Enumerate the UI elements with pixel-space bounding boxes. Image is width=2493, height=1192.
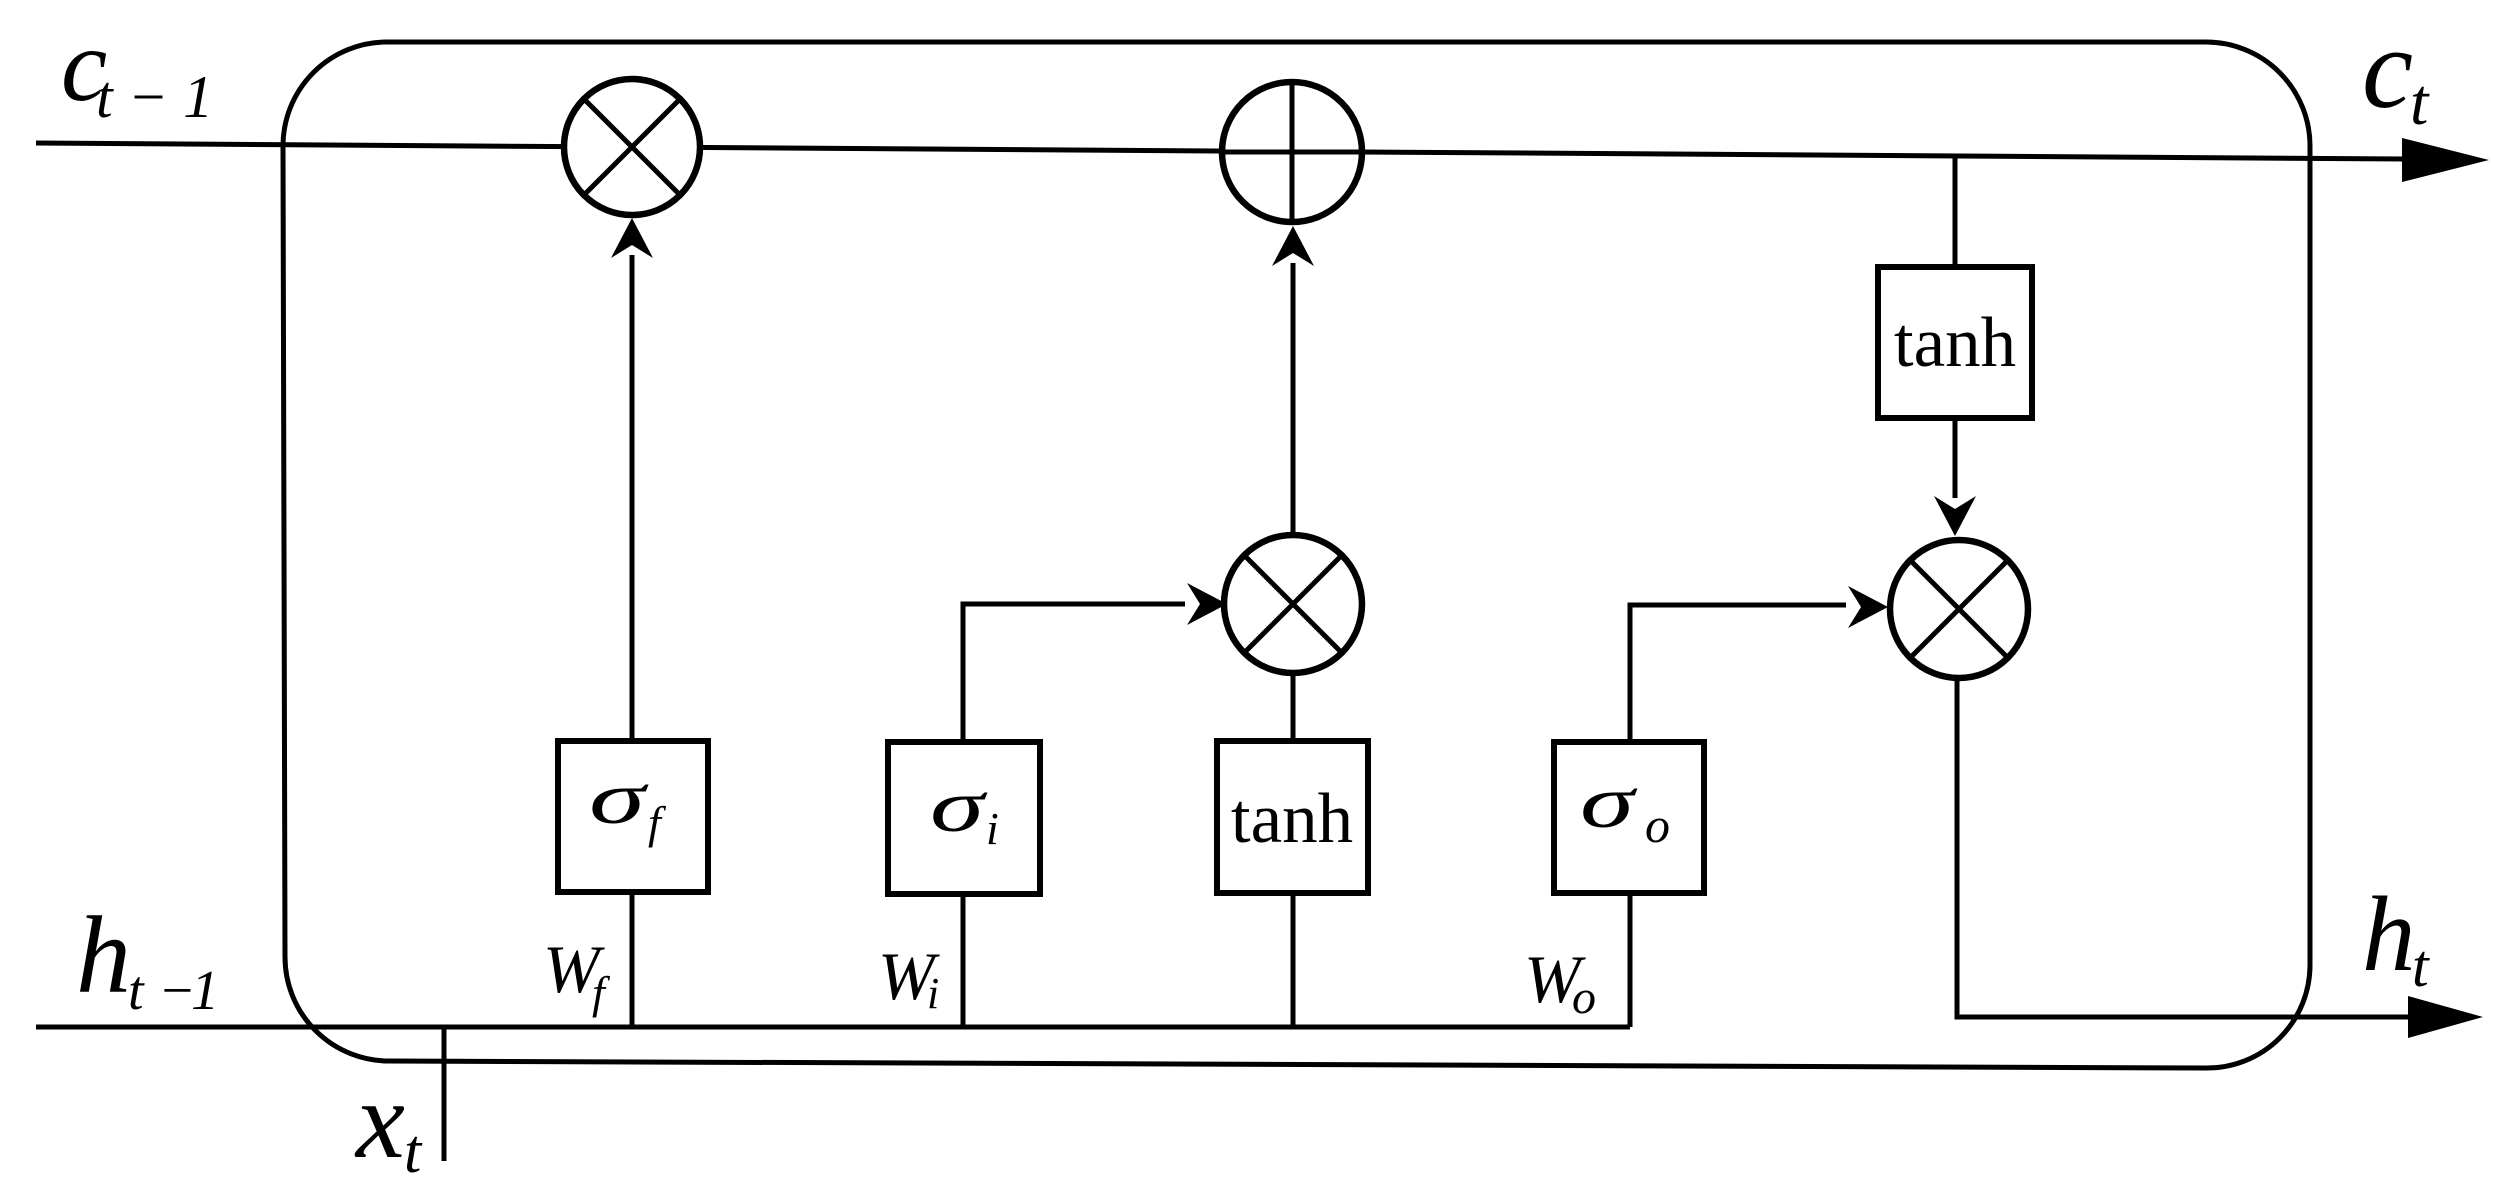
cell boundary rounded rectangle [283, 42, 2310, 1068]
svg-text:c: c [2362, 5, 2413, 132]
box sigma_f forget gate [558, 741, 708, 892]
node input multiply circle [1224, 535, 1362, 673]
svg-text:t: t [404, 1118, 423, 1186]
wire sigma_i down to h line [961, 894, 966, 1027]
node h_t output arrowhead [2408, 996, 2483, 1038]
box output tanh [1878, 267, 2032, 418]
svg-text:σ: σ [1580, 762, 1638, 844]
wire c-state line [36, 143, 2404, 159]
node c_t output arrowhead [2402, 138, 2489, 182]
wire candidate tanh up to input multiply [1291, 671, 1296, 741]
svg-text:1: 1 [191, 960, 219, 1022]
wire sigma_o down to h line [1628, 894, 1633, 1027]
wire output tanh down to output multiply [1953, 418, 1958, 498]
box sigma_o output gate [1554, 742, 1704, 893]
wire sigma_f down to h line [630, 892, 635, 1027]
svg-text:t: t [2412, 933, 2430, 999]
svg-text:t: t [128, 960, 145, 1022]
node output multiply circle [1890, 540, 2028, 678]
svg-text:σ: σ [589, 758, 649, 840]
svg-text:h: h [2362, 876, 2416, 994]
wire candidate tanh down to h line [1291, 894, 1296, 1027]
wire x_t input stub [442, 1027, 447, 1161]
svg-text:tanh: tanh [1894, 304, 2016, 382]
svg-text:tanh: tanh [1231, 780, 1353, 858]
box sigma_i input gate [888, 742, 1040, 894]
svg-text:i: i [986, 803, 999, 854]
wire sigma_o elbow to output multiply [1630, 605, 1846, 742]
wire sigma_f up to forget multiply [630, 255, 635, 741]
wire input multiply up to add node [1291, 263, 1296, 537]
node add circle [1222, 82, 1362, 222]
wire sigma_i elbow to input multiply [963, 604, 1185, 742]
svg-text:t: t [2410, 66, 2430, 139]
node forget multiply circle [564, 79, 700, 215]
svg-text:h: h [76, 894, 131, 1016]
svg-text:i: i [927, 969, 939, 1018]
svg-text:σ: σ [930, 766, 988, 848]
wire output multiply down and right to h_t [1957, 678, 2408, 1017]
svg-text:x: x [354, 1059, 405, 1181]
svg-text:o: o [1572, 971, 1596, 1024]
wire c line down to output tanh [1953, 156, 1958, 267]
wire h recurrent line [36, 1025, 1630, 1030]
svg-text:t − 1: t − 1 [96, 64, 213, 130]
svg-text:o: o [1645, 797, 1670, 853]
box candidate tanh [1217, 741, 1368, 893]
